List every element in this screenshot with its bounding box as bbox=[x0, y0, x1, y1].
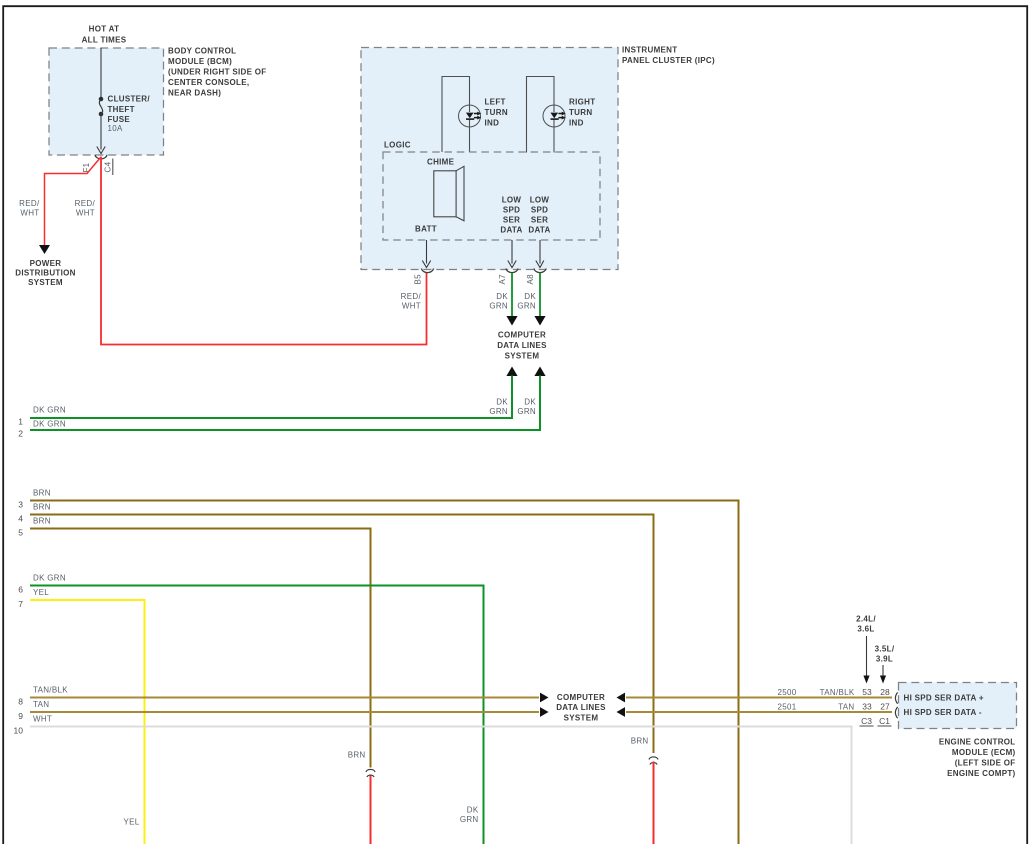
wire fuse to BCM pin bbox=[97, 114, 105, 154]
svg-text:HI SPD SER DATA -: HI SPD SER DATA - bbox=[904, 708, 982, 717]
svg-text:CHIME: CHIME bbox=[427, 158, 455, 167]
pin 27 label bbox=[880, 701, 890, 711]
svg-text:MODULE (ECM): MODULE (ECM) bbox=[952, 748, 1016, 757]
wire TAN/BLK right segment to ECM bbox=[617, 693, 893, 703]
svg-text:1: 1 bbox=[18, 417, 23, 427]
svg-text:2.4L/: 2.4L/ bbox=[856, 615, 876, 624]
svg-text:BRN: BRN bbox=[33, 516, 51, 525]
svg-text:IND: IND bbox=[485, 119, 500, 128]
svg-text:COMPUTER: COMPUTER bbox=[498, 331, 546, 340]
svg-text:TURN: TURN bbox=[569, 108, 592, 117]
row 5 wire BRN bbox=[18, 516, 370, 767]
label DK GRN under A7 bbox=[489, 292, 508, 311]
svg-text:DK: DK bbox=[524, 292, 536, 301]
svg-text:TURN: TURN bbox=[485, 108, 508, 117]
label HI SPD SER DATA - bbox=[904, 708, 982, 717]
svg-text:GRN: GRN bbox=[489, 407, 508, 416]
row 10 wire WHT bbox=[14, 715, 852, 844]
svg-text:9: 9 bbox=[18, 711, 23, 721]
svg-text:POWER: POWER bbox=[30, 259, 62, 268]
svg-text:28: 28 bbox=[880, 687, 890, 697]
wire TAN right segment to ECM bbox=[617, 707, 893, 717]
node POWER DISTRIBUTION SYSTEM bbox=[15, 259, 76, 287]
svg-text:IND: IND bbox=[569, 119, 584, 128]
svg-text:CLUSTER/: CLUSTER/ bbox=[108, 95, 151, 104]
connector cup at IPC A8 bbox=[534, 269, 546, 273]
label RED/WHT right bbox=[75, 199, 96, 218]
svg-text:(LEFT SIDE OF: (LEFT SIDE OF bbox=[955, 759, 1016, 768]
LED right turn indicator bbox=[543, 105, 566, 127]
row 8 wire TAN/BLK bbox=[18, 686, 548, 707]
svg-text:YEL: YEL bbox=[123, 818, 139, 827]
label LEFT TURN IND bbox=[485, 98, 508, 128]
row 6 wire DK GRN bbox=[18, 573, 483, 844]
body control module BCM box bbox=[49, 48, 164, 155]
wire RED/WHT from BCM C4 to IPC B5 bbox=[101, 157, 427, 345]
svg-text:A7: A7 bbox=[498, 274, 507, 285]
svg-text:RED/: RED/ bbox=[75, 199, 96, 208]
svg-text:SYSTEM: SYSTEM bbox=[505, 352, 540, 361]
svg-text:7: 7 bbox=[18, 599, 23, 609]
svg-text:HI SPD SER DATA +: HI SPD SER DATA + bbox=[904, 694, 984, 703]
svg-text:2501: 2501 bbox=[778, 702, 797, 711]
IPC caption bbox=[622, 46, 715, 66]
svg-text:3.5L/: 3.5L/ bbox=[875, 645, 895, 654]
label DK GRN at bottom bbox=[460, 805, 479, 824]
svg-text:DK: DK bbox=[467, 805, 479, 814]
svg-text:GRN: GRN bbox=[460, 815, 479, 824]
svg-text:(UNDER RIGHT SIDE OF: (UNDER RIGHT SIDE OF bbox=[168, 68, 266, 77]
svg-text:53: 53 bbox=[862, 687, 872, 697]
label YEL at bottom bbox=[123, 818, 139, 827]
svg-text:WHT: WHT bbox=[402, 302, 421, 311]
svg-text:DK GRN: DK GRN bbox=[33, 420, 66, 429]
fuse CLUSTER/THEFT FUSE 10A bbox=[99, 95, 151, 134]
row 9 wire TAN bbox=[18, 700, 548, 721]
svg-text:THEFT: THEFT bbox=[108, 105, 135, 114]
svg-text:DK: DK bbox=[496, 292, 508, 301]
engine control module ECM box bbox=[899, 683, 1017, 729]
svg-text:DK GRN: DK GRN bbox=[33, 405, 66, 414]
pin 53 label bbox=[862, 687, 872, 697]
svg-text:GRN: GRN bbox=[489, 302, 508, 311]
svg-text:BRN: BRN bbox=[33, 488, 51, 497]
svg-text:PANEL CLUSTER (IPC): PANEL CLUSTER (IPC) bbox=[622, 56, 715, 65]
svg-text:TAN: TAN bbox=[33, 700, 49, 709]
label HI SPD SER DATA + bbox=[904, 694, 984, 703]
svg-text:RED/: RED/ bbox=[19, 199, 40, 208]
label BRN above connector x370 bbox=[348, 750, 366, 759]
node COMPUTER DATA LINES SYSTEM upper bbox=[497, 331, 547, 361]
wire RED below connector x370 bbox=[370, 776, 372, 845]
svg-text:HOT AT: HOT AT bbox=[89, 25, 120, 34]
pin A8 label bbox=[526, 274, 535, 285]
label LOW SPD SER DATA (A8) bbox=[528, 196, 550, 235]
svg-text:B5: B5 bbox=[414, 274, 423, 285]
inline connector on row4 wire bbox=[649, 757, 658, 765]
pin 33 label bbox=[862, 701, 872, 711]
svg-text:6: 6 bbox=[18, 585, 23, 595]
svg-text:SYSTEM: SYSTEM bbox=[28, 278, 63, 287]
svg-text:RED/: RED/ bbox=[401, 292, 422, 301]
label DK GRN above riser 2 bbox=[517, 398, 536, 417]
svg-text:2: 2 bbox=[18, 429, 23, 439]
connector bracket at HI SPD SER DATA + bbox=[895, 692, 897, 703]
svg-text:SPD: SPD bbox=[503, 206, 520, 215]
wire DK GRN row2 riser with arrow bbox=[30, 367, 546, 431]
svg-text:LOW: LOW bbox=[530, 196, 550, 205]
pin A7 label bbox=[498, 274, 507, 285]
svg-text:INSTRUMENT: INSTRUMENT bbox=[622, 46, 677, 55]
label BRN above connector x653 bbox=[631, 736, 649, 745]
svg-text:BRN: BRN bbox=[631, 736, 649, 745]
connector cup at IPC B5 bbox=[421, 269, 433, 273]
svg-text:10: 10 bbox=[14, 726, 24, 736]
row 7 wire YEL bbox=[18, 588, 144, 844]
svg-text:BRN: BRN bbox=[33, 502, 51, 511]
svg-text:WHT: WHT bbox=[33, 715, 52, 724]
svg-text:3.9L: 3.9L bbox=[876, 655, 893, 664]
svg-text:COMPUTER: COMPUTER bbox=[557, 693, 605, 702]
svg-text:DISTRIBUTION: DISTRIBUTION bbox=[15, 269, 76, 278]
pin A8 wire bbox=[536, 240, 544, 268]
svg-text:SER: SER bbox=[503, 216, 520, 225]
connector C1 label bbox=[878, 716, 892, 726]
inline connector on row5 wire bbox=[366, 769, 375, 777]
wire RED/WHT branch to power distribution bbox=[45, 158, 101, 246]
svg-text:LOW: LOW bbox=[502, 196, 522, 205]
wire RED below connector x653 bbox=[653, 762, 655, 845]
label circuit 2501 TAN bbox=[778, 702, 855, 711]
svg-text:27: 27 bbox=[880, 701, 890, 711]
label RED/WHT left bbox=[19, 199, 40, 218]
svg-text:C4: C4 bbox=[104, 161, 113, 172]
row 1 number and label bbox=[18, 405, 66, 426]
LOGIC box bbox=[383, 141, 600, 241]
svg-text:TAN/BLK: TAN/BLK bbox=[33, 686, 68, 695]
label DK GRN under A8 bbox=[517, 292, 536, 311]
svg-text:8: 8 bbox=[18, 697, 23, 707]
pin BATT wire and label bbox=[415, 225, 437, 268]
row 3 wire BRN bbox=[18, 488, 738, 844]
svg-text:SPD: SPD bbox=[531, 206, 548, 215]
label 2.4L/3.6L variant bbox=[856, 615, 876, 684]
svg-text:DATA: DATA bbox=[500, 226, 522, 235]
wire DK GRN from A7 bbox=[506, 273, 517, 326]
connector cup at BCM pin bbox=[95, 155, 107, 159]
svg-text:ENGINE COMPT): ENGINE COMPT) bbox=[947, 769, 1015, 778]
svg-text:YEL: YEL bbox=[33, 588, 49, 597]
node HOT AT ALL TIMES bbox=[82, 25, 127, 45]
row 4 wire BRN bbox=[18, 502, 653, 753]
svg-text:MODULE (BCM): MODULE (BCM) bbox=[168, 57, 232, 66]
connector bracket at HI SPD SER DATA - bbox=[895, 707, 897, 718]
svg-text:C3: C3 bbox=[861, 716, 872, 726]
pin C4 label bbox=[104, 159, 113, 176]
svg-text:C1: C1 bbox=[879, 716, 890, 726]
svg-text:BRN: BRN bbox=[348, 750, 366, 759]
svg-text:FUSE: FUSE bbox=[108, 115, 131, 124]
svg-text:DATA LINES: DATA LINES bbox=[497, 341, 547, 350]
svg-text:LEFT: LEFT bbox=[485, 98, 506, 107]
svg-text:WHT: WHT bbox=[20, 209, 39, 218]
wire DK GRN row1 riser with arrow bbox=[30, 367, 518, 419]
svg-text:CENTER CONSOLE,: CENTER CONSOLE, bbox=[168, 78, 249, 87]
svg-text:A8: A8 bbox=[526, 274, 535, 285]
svg-text:DATA: DATA bbox=[528, 226, 550, 235]
svg-text:10A: 10A bbox=[108, 124, 123, 133]
svg-text:GRN: GRN bbox=[517, 302, 536, 311]
label LOW SPD SER DATA (A7) bbox=[500, 196, 522, 235]
svg-text:BODY CONTROL: BODY CONTROL bbox=[168, 47, 236, 56]
svg-text:NEAR DASH): NEAR DASH) bbox=[168, 89, 221, 98]
svg-text:ALL TIMES: ALL TIMES bbox=[82, 36, 127, 45]
label RED/WHT under B5 bbox=[401, 292, 422, 311]
svg-text:BATT: BATT bbox=[415, 225, 437, 234]
svg-text:TAN/BLK: TAN/BLK bbox=[820, 688, 855, 697]
svg-text:2500: 2500 bbox=[778, 688, 797, 697]
arrow to power distribution bbox=[39, 245, 50, 254]
BCM caption bbox=[168, 47, 266, 98]
row 2 number and label bbox=[18, 420, 66, 439]
wire DK GRN from A8 bbox=[534, 273, 545, 326]
label circuit 2500 TAN/BLK bbox=[778, 688, 855, 697]
pin F1 label bbox=[82, 162, 91, 172]
wire hot feed into fuse bbox=[100, 48, 102, 98]
pin B5 label bbox=[414, 274, 423, 285]
svg-text:33: 33 bbox=[862, 701, 872, 711]
svg-text:RIGHT: RIGHT bbox=[569, 98, 595, 107]
svg-text:ENGINE CONTROL: ENGINE CONTROL bbox=[939, 738, 1016, 747]
svg-text:LOGIC: LOGIC bbox=[384, 141, 411, 150]
pin 28 label bbox=[880, 687, 890, 697]
connector cup at IPC A7 bbox=[506, 269, 518, 273]
svg-text:DK: DK bbox=[496, 398, 508, 407]
instrument panel cluster IPC box bbox=[361, 48, 618, 270]
svg-text:DK: DK bbox=[524, 398, 536, 407]
label 3.5L/3.9L variant bbox=[875, 645, 895, 684]
svg-text:SYSTEM: SYSTEM bbox=[564, 713, 599, 722]
svg-text:3: 3 bbox=[18, 500, 23, 510]
connector C3 label bbox=[860, 716, 874, 726]
svg-text:DATA LINES: DATA LINES bbox=[556, 703, 606, 712]
svg-text:5: 5 bbox=[18, 528, 23, 538]
pin A7 wire bbox=[508, 240, 516, 268]
svg-text:SER: SER bbox=[531, 216, 548, 225]
svg-text:WHT: WHT bbox=[76, 209, 95, 218]
svg-text:TAN: TAN bbox=[838, 702, 854, 711]
svg-text:3.6L: 3.6L bbox=[857, 625, 874, 634]
chime speaker symbol bbox=[427, 158, 464, 221]
svg-text:GRN: GRN bbox=[517, 407, 536, 416]
wire loop left turn indicator bbox=[442, 77, 470, 153]
label DK GRN above riser 1 bbox=[489, 398, 508, 417]
svg-text:4: 4 bbox=[18, 514, 23, 524]
label RIGHT TURN IND bbox=[569, 98, 595, 128]
wire loop right turn indicator bbox=[527, 77, 555, 153]
node COMPUTER DATA LINES SYSTEM lower bbox=[556, 693, 606, 722]
LED left turn indicator bbox=[459, 105, 482, 127]
ECM caption bbox=[939, 738, 1016, 779]
svg-text:DK GRN: DK GRN bbox=[33, 573, 66, 582]
